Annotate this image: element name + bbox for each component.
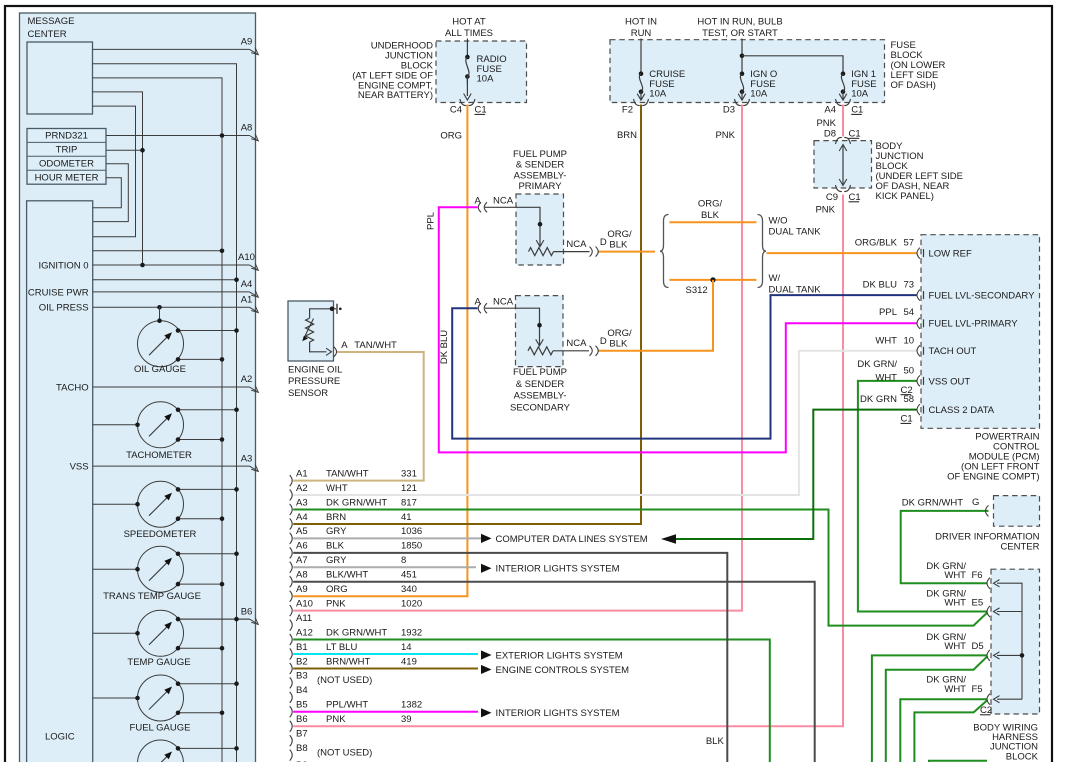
svg-text:VSS OUT: VSS OUT xyxy=(929,376,971,387)
svg-text:NEAR BATTERY): NEAR BATTERY) xyxy=(358,90,433,101)
label PNK / D8 / C1 at body junction block input xyxy=(816,118,860,140)
label W/ DUAL TANK xyxy=(769,273,822,296)
svg-text:DK BLU: DK BLU xyxy=(863,279,897,290)
svg-text:C1: C1 xyxy=(849,128,861,139)
svg-text:WHT: WHT xyxy=(944,598,966,609)
svg-text:BLOCK: BLOCK xyxy=(1006,751,1039,762)
svg-text:G: G xyxy=(972,497,979,508)
label POWERTRAIN CONTROL MODULE (PCM) (ON LEFT FRONT OF ENGINE COMPT) xyxy=(947,432,1040,483)
wire IGNITION 0 to A10 xyxy=(93,252,259,270)
label INTERIOR LIGHTS SYSTEM A7 xyxy=(496,564,620,575)
svg-text:IGNITION 0: IGNITION 0 xyxy=(38,260,88,271)
svg-text:451: 451 xyxy=(401,570,417,581)
svg-text:121: 121 xyxy=(401,483,417,494)
connector C9/C1 body junction block output xyxy=(826,185,861,203)
wire DK GRN/WHT body harness F5 lower approach xyxy=(914,700,987,767)
svg-text:DK GRN/WHT: DK GRN/WHT xyxy=(326,497,387,508)
wire hot-at-all-times feed xyxy=(466,39,468,58)
svg-text:CLASS 2 DATA: CLASS 2 DATA xyxy=(929,405,995,416)
svg-text:1382: 1382 xyxy=(401,700,422,711)
wire bottom gauge to right bus xyxy=(176,746,239,751)
wire logic to left bus y250.8 xyxy=(93,249,225,254)
DIC pin G xyxy=(972,497,989,517)
svg-text:W/O: W/O xyxy=(769,215,788,226)
arrow interior lights system B5 xyxy=(481,708,492,717)
wire fuel gauge to left bus xyxy=(176,711,225,716)
wire DK GRN/WHT body harness D5 direct xyxy=(872,655,988,767)
wire temp gauge to left bus xyxy=(176,646,225,651)
svg-text:KICK PANEL): KICK PANEL) xyxy=(876,191,934,202)
svg-text:F5: F5 xyxy=(972,684,983,695)
svg-text:SENSOR: SENSOR xyxy=(288,388,328,399)
oil gauge xyxy=(138,321,184,367)
svg-text:ORG: ORG xyxy=(326,584,348,595)
wire BLK/WHT 451 A8 xyxy=(293,582,815,767)
label W/O DUAL TANK xyxy=(769,215,822,237)
svg-text:57: 57 xyxy=(904,237,915,248)
svg-text:39: 39 xyxy=(401,714,412,725)
wire BRN/WHT 419 B2 to engine controls system xyxy=(293,667,478,669)
cluster connector pin A6 xyxy=(290,541,422,559)
svg-text:WHT: WHT xyxy=(326,483,348,494)
svg-text:PNK: PNK xyxy=(326,598,346,609)
wire logic to bottom gauge xyxy=(93,762,138,764)
label ENGINE OIL PRESSURE SENSOR xyxy=(288,364,342,399)
svg-text:& SENDER: & SENDER xyxy=(516,379,565,390)
wire oil gauge to right bus xyxy=(176,328,239,333)
svg-text:D8: D8 xyxy=(824,128,836,139)
svg-text:INTERIOR LIGHTS SYSTEM: INTERIOR LIGHTS SYSTEM xyxy=(496,564,620,575)
PCM pin VSS OUT xyxy=(901,365,971,395)
wire CRUISE PWR to A4 xyxy=(93,279,259,297)
svg-text:8: 8 xyxy=(401,555,406,566)
svg-text:B8: B8 xyxy=(296,743,308,754)
wire GRY 8 A7 to interior lights system xyxy=(293,566,476,568)
svg-text:817: 817 xyxy=(401,497,417,508)
svg-text:B1: B1 xyxy=(296,642,308,653)
cluster connector pin A3 xyxy=(290,497,417,515)
wire tachometer to right bus xyxy=(176,408,239,413)
arrow computer data lines system xyxy=(481,534,492,543)
wire PNK body junction block C9 to B6 xyxy=(293,195,843,727)
wire ORG/BLK option without dual tank xyxy=(669,221,756,223)
wire TAN/WHT oil pressure sensor to A1 xyxy=(293,352,424,481)
label ORG/BLK (primary D) xyxy=(607,229,632,250)
svg-text:HOT AT: HOT AT xyxy=(452,16,486,27)
wire BLK 1850 A6 xyxy=(293,553,727,767)
svg-text:DK GRN/WHT: DK GRN/WHT xyxy=(902,498,963,509)
wire ORG/BLK option with dual tank / splice S312 xyxy=(669,277,756,282)
logic module block xyxy=(27,201,93,767)
svg-text:DUAL TANK: DUAL TANK xyxy=(769,227,822,238)
svg-text:E5: E5 xyxy=(972,598,984,609)
svg-text:TACHO: TACHO xyxy=(56,382,89,393)
svg-text:D: D xyxy=(600,336,607,347)
svg-text:RUN: RUN xyxy=(631,28,652,39)
svg-text:A8: A8 xyxy=(241,123,253,134)
svg-text:W/: W/ xyxy=(769,273,781,284)
svg-text:ORG/: ORG/ xyxy=(698,199,723,210)
wire PPL fuel pump primary A to PCM FUEL LVL-PRIMARY xyxy=(439,207,917,452)
wire oil gauge to left bus xyxy=(176,357,225,362)
body wiring harness junction block xyxy=(991,569,1040,714)
svg-text:A9: A9 xyxy=(296,584,308,595)
svg-text:TRANS TEMP GAUGE: TRANS TEMP GAUGE xyxy=(103,591,201,602)
label IGN 1 FUSE 10A xyxy=(851,69,876,99)
label FUEL GAUGE xyxy=(130,722,191,733)
svg-text:BLK: BLK xyxy=(706,736,725,747)
svg-text:OIL PRESS: OIL PRESS xyxy=(39,303,89,314)
cluster connector pin A5 xyxy=(290,526,422,544)
cluster connector pin B1 xyxy=(290,642,412,660)
cluster connector pin A11 xyxy=(290,613,313,631)
svg-text:F2: F2 xyxy=(622,105,633,116)
wire logic to temp gauge xyxy=(93,631,140,636)
svg-text:NCA: NCA xyxy=(566,338,587,349)
wire DK GRN 58 PCM CLASS 2 DATA to data line arrow xyxy=(676,410,917,539)
svg-text:OIL GAUGE: OIL GAUGE xyxy=(134,364,186,375)
svg-text:TRIP: TRIP xyxy=(56,145,78,156)
svg-text:A2: A2 xyxy=(241,374,253,385)
svg-text:ENGINE OIL: ENGINE OIL xyxy=(288,364,342,375)
svg-text:BLK: BLK xyxy=(609,339,628,350)
svg-text:D3: D3 xyxy=(723,105,735,116)
wire message center line2 to right vertical bus xyxy=(93,64,237,767)
temp gauge xyxy=(138,610,184,656)
label FUEL PUMP & SENDER ASSEMBLY-PRIMARY xyxy=(513,149,567,192)
svg-text:A5: A5 xyxy=(296,526,308,537)
fuse CRUISE FUSE 10A xyxy=(637,71,645,100)
svg-text:DUAL TANK: DUAL TANK xyxy=(769,285,822,296)
display block PRND321/TRIP/ODOMETER/HOUR METER xyxy=(27,129,106,185)
svg-text:419: 419 xyxy=(401,656,417,667)
svg-text:ASSEMBLY-: ASSEMBLY- xyxy=(514,170,567,181)
svg-text:10A: 10A xyxy=(649,89,667,100)
wire PRND321 to A8 xyxy=(106,123,258,141)
wire tachometer to left bus xyxy=(176,437,225,442)
svg-text:BLK: BLK xyxy=(326,541,345,552)
label RADIO FUSE 10A xyxy=(477,54,507,84)
svg-text:B7: B7 xyxy=(296,729,308,740)
label BLK xyxy=(706,736,725,747)
svg-text:TACH OUT: TACH OUT xyxy=(929,346,977,357)
fuel pump and sender assembly primary xyxy=(478,194,598,265)
label (NOT USED) B8 xyxy=(317,747,372,758)
svg-text:FUEL PUMP: FUEL PUMP xyxy=(513,367,567,378)
svg-text:A3: A3 xyxy=(241,453,253,464)
svg-text:PNK: PNK xyxy=(715,130,735,141)
cluster connector pin B2 xyxy=(290,656,417,674)
svg-text:1932: 1932 xyxy=(401,627,422,638)
fuse RADIO FUSE 10A xyxy=(464,55,472,100)
label PNK (ign-o wire) xyxy=(715,130,735,141)
arrow interior lights system A7 xyxy=(481,564,492,573)
wire DK GRN/WHT next pin approach (partial at bottom) xyxy=(929,761,987,767)
cluster connector pin B3 xyxy=(290,671,308,689)
svg-text:WHT: WHT xyxy=(944,684,966,695)
svg-text:331: 331 xyxy=(401,468,417,479)
label DK BLU (vertical) xyxy=(439,330,450,364)
svg-text:C4: C4 xyxy=(450,105,462,116)
wire oil press to oil gauge top xyxy=(157,307,162,323)
svg-text:A8: A8 xyxy=(296,570,308,581)
svg-text:73: 73 xyxy=(904,279,915,290)
svg-text:10A: 10A xyxy=(477,73,495,84)
wire VSS to A3 xyxy=(93,453,259,471)
svg-text:DK GRN/: DK GRN/ xyxy=(857,359,897,370)
svg-text:BLK: BLK xyxy=(609,239,628,250)
svg-text:LT BLU: LT BLU xyxy=(326,642,357,653)
wire PPL/WHT 1382 B5 to interior lights system xyxy=(293,711,478,713)
cluster connector pin A4 xyxy=(290,512,412,530)
svg-text:& SENDER: & SENDER xyxy=(516,160,565,171)
wire WHT 10 A2 to PCM TACH OUT xyxy=(293,351,916,495)
wire hot-in-run-bulb-test feed and branch xyxy=(740,39,843,74)
trans temp gauge xyxy=(138,546,184,592)
svg-text:SECONDARY: SECONDARY xyxy=(510,403,571,414)
wire DK GRN/WHT DIC G to body harness F6 xyxy=(901,511,989,583)
svg-text:TACHOMETER: TACHOMETER xyxy=(126,450,192,461)
svg-text:A3: A3 xyxy=(296,497,308,508)
sensor case connection stub xyxy=(334,304,342,314)
svg-text:CRUISE PWR: CRUISE PWR xyxy=(28,287,89,298)
label NCA D (secondary) xyxy=(566,336,607,349)
svg-text:A: A xyxy=(475,296,482,307)
driver information center xyxy=(994,496,1040,527)
svg-text:PRND321: PRND321 xyxy=(45,131,88,142)
cluster connector pin A2 xyxy=(290,483,417,501)
svg-text:A6: A6 xyxy=(296,541,308,552)
svg-text:SPEEDOMETER: SPEEDOMETER xyxy=(124,529,197,540)
svg-text:50: 50 xyxy=(904,365,915,376)
arrow to computer data lines (left) xyxy=(661,534,676,544)
svg-text:TEMP GAUGE: TEMP GAUGE xyxy=(127,657,190,668)
svg-text:PNK: PNK xyxy=(326,714,346,725)
wire through body junction block xyxy=(839,145,847,186)
label DK GRN (CLASS 2 DATA) xyxy=(860,394,897,405)
svg-text:41: 41 xyxy=(401,512,412,523)
svg-text:A4: A4 xyxy=(296,512,308,523)
label BRN xyxy=(617,130,637,141)
connector A at sensor xyxy=(334,347,337,357)
wire trans temp gauge to left bus xyxy=(176,582,225,587)
svg-text:B6: B6 xyxy=(296,714,308,725)
svg-text:TEST, OR START: TEST, OR START xyxy=(702,28,778,39)
cluster connector pin A1 xyxy=(290,468,417,486)
svg-text:A1: A1 xyxy=(241,295,253,306)
wire speedometer to left bus xyxy=(176,516,225,521)
svg-text:TAN/WHT: TAN/WHT xyxy=(354,340,397,351)
connector D8 cup xyxy=(836,137,851,144)
wire PNK ign-1 fuse A4 to body junction block D8 xyxy=(842,105,844,137)
svg-text:BLK/WHT: BLK/WHT xyxy=(326,570,368,581)
label FUSE BLOCK (ON LOWER LEFT SIDE OF DASH) xyxy=(891,40,946,91)
svg-text:A2: A2 xyxy=(296,483,308,494)
body junction block xyxy=(814,141,872,188)
option brace right xyxy=(758,215,767,288)
svg-text:BRN: BRN xyxy=(617,130,637,141)
cluster connector pin B6 xyxy=(290,714,412,732)
speedometer gauge xyxy=(138,481,184,527)
label FUEL PUMP & SENDER ASSEMBLY-SECONDARY xyxy=(510,367,571,413)
label TRANS TEMP GAUGE xyxy=(103,591,201,602)
svg-text:BLK: BLK xyxy=(701,210,720,221)
svg-text:A9: A9 xyxy=(241,37,253,48)
arrow engine controls system xyxy=(481,665,492,674)
svg-text:D: D xyxy=(600,237,607,248)
wire PNK ign-o fuse D3 to A10 xyxy=(293,105,742,611)
wire ORG/BLK S312 to fuel pump secondary D xyxy=(598,280,714,351)
svg-text:S312: S312 xyxy=(686,285,708,296)
wire speedometer to right bus xyxy=(176,487,239,492)
harness pin E5 xyxy=(926,589,999,618)
svg-text:ENGINE CONTROLS SYSTEM: ENGINE CONTROLS SYSTEM xyxy=(496,665,630,676)
svg-text:WHT: WHT xyxy=(875,372,897,383)
label UNDERHOOD JUNCTION BLOCK (AT LEFT SIDE OF ENGINE COMPT, NEAR BATTERY) xyxy=(352,41,433,102)
svg-text:B6: B6 xyxy=(241,606,253,617)
svg-text:FUEL GAUGE: FUEL GAUGE xyxy=(130,722,191,733)
wire message center to A9 xyxy=(93,37,259,55)
label TACHOMETER xyxy=(126,450,192,461)
PCM pin LOW REF xyxy=(855,237,972,259)
PCM pin FUEL LVL-PRIMARY xyxy=(879,307,1018,330)
svg-text:(NOT USED): (NOT USED) xyxy=(317,675,372,686)
powertrain control module (PCM) xyxy=(921,235,1040,429)
svg-text:INTERIOR LIGHTS SYSTEM: INTERIOR LIGHTS SYSTEM xyxy=(496,708,620,719)
svg-text:340: 340 xyxy=(401,584,417,595)
svg-text:A: A xyxy=(341,340,348,351)
svg-text:PNK: PNK xyxy=(815,204,835,215)
label BODY WIRING HARNESS JUNCTION BLOCK xyxy=(973,723,1038,763)
label SPEEDOMETER xyxy=(124,529,197,540)
svg-text:B4: B4 xyxy=(296,685,308,696)
label EXTERIOR LIGHTS SYSTEM xyxy=(496,650,623,661)
cluster connector pin B4 xyxy=(290,685,308,703)
svg-text:EXTERIOR LIGHTS SYSTEM: EXTERIOR LIGHTS SYSTEM xyxy=(496,650,623,661)
harness internal bus xyxy=(997,583,1024,699)
wire logic to fuel gauge xyxy=(93,696,140,701)
svg-text:10: 10 xyxy=(904,335,915,346)
svg-text:NCA: NCA xyxy=(493,296,514,307)
svg-text:PRESSURE: PRESSURE xyxy=(288,376,340,387)
label A NCA (primary) xyxy=(475,195,514,206)
svg-text:D5: D5 xyxy=(972,641,984,652)
label HOT IN RUN BULB TEST OR START xyxy=(697,16,782,39)
label PPL (vertical) xyxy=(425,212,436,230)
wire ORG radio fuse to A9 xyxy=(293,105,467,597)
wire logic to trans temp gauge xyxy=(93,567,140,572)
svg-text:C9: C9 xyxy=(826,192,838,203)
svg-text:C1: C1 xyxy=(851,105,863,116)
label VSS xyxy=(70,462,89,473)
svg-text:A4: A4 xyxy=(824,105,836,116)
svg-text:A10: A10 xyxy=(296,598,313,609)
label DK GRN/ WHT (VSS OUT) xyxy=(857,359,897,384)
svg-text:OF DASH): OF DASH) xyxy=(891,80,936,91)
wire TRIP row xyxy=(106,148,145,153)
arrow exterior lights system xyxy=(481,650,492,659)
svg-text:10A: 10A xyxy=(750,89,768,100)
wire message center line5 into logic module xyxy=(93,106,136,237)
svg-text:1850: 1850 xyxy=(401,541,422,552)
svg-text:PPL: PPL xyxy=(879,307,897,318)
svg-text:CENTER: CENTER xyxy=(28,29,67,40)
svg-text:A10: A10 xyxy=(238,252,255,263)
label NCA D (primary) xyxy=(566,237,607,250)
svg-text:(NOT USED): (NOT USED) xyxy=(317,747,372,758)
svg-text:A12: A12 xyxy=(296,627,313,638)
svg-text:OF ENGINE COMPT): OF ENGINE COMPT) xyxy=(947,472,1039,483)
svg-text:HOUR METER: HOUR METER xyxy=(35,172,99,183)
wire message center line3 to left vertical bus xyxy=(93,78,223,767)
svg-text:FUEL LVL-PRIMARY: FUEL LVL-PRIMARY xyxy=(929,319,1019,330)
wire LT BLU 14 B1 to exterior lights system xyxy=(293,653,478,655)
svg-text:C1: C1 xyxy=(475,105,487,116)
cluster connector pin B8 xyxy=(290,743,308,761)
label ENGINE CONTROLS SYSTEM xyxy=(496,665,630,676)
svg-text:NCA: NCA xyxy=(566,239,587,250)
label BODY JUNCTION BLOCK (UNDER LEFT SIDE OF DASH, NEAR KICK PANEL) xyxy=(876,141,963,202)
label ORG xyxy=(440,130,462,141)
svg-text:1020: 1020 xyxy=(401,598,422,609)
label TACHO xyxy=(56,382,89,393)
engine oil pressure sensor xyxy=(288,301,334,361)
connector D3 ign-o fuse output xyxy=(723,99,750,116)
svg-text:PPL: PPL xyxy=(425,212,436,230)
harness pin F6 xyxy=(926,561,999,589)
connector C4/C1 radio fuse output xyxy=(450,99,487,116)
wire TACHO to A2 xyxy=(93,374,259,392)
svg-text:HOT IN RUN, BULB: HOT IN RUN, BULB xyxy=(697,16,782,27)
svg-text:PRIMARY: PRIMARY xyxy=(518,181,562,192)
cluster connector pin A10 xyxy=(290,598,422,616)
svg-text:ORG: ORG xyxy=(440,130,462,141)
svg-text:COMPUTER DATA LINES SYSTEM: COMPUTER DATA LINES SYSTEM xyxy=(496,534,648,545)
option brace left xyxy=(660,215,669,288)
cluster connector pin A7 xyxy=(290,555,407,573)
label (NOT USED) B3/B4 xyxy=(317,675,372,686)
svg-text:TAN/WHT: TAN/WHT xyxy=(326,468,369,479)
svg-text:A: A xyxy=(475,195,482,206)
wire logic to right bus y279.8 xyxy=(93,278,239,283)
underhood junction block xyxy=(436,41,527,103)
label ORG/BLK above option brace xyxy=(698,199,723,221)
wire fuel gauge to right bus xyxy=(176,681,239,686)
svg-text:14: 14 xyxy=(401,642,412,653)
label PNK below C9 xyxy=(815,204,835,215)
PCM pin CLASS 2 DATA xyxy=(901,394,995,425)
svg-text:ALL TIMES: ALL TIMES xyxy=(445,28,493,39)
label IGNITION 0 xyxy=(38,260,88,271)
svg-text:CENTER: CENTER xyxy=(1000,541,1039,552)
svg-text:WHT: WHT xyxy=(875,335,897,346)
svg-text:ODOMETER: ODOMETER xyxy=(39,159,94,170)
svg-text:LOW REF: LOW REF xyxy=(929,249,972,260)
label CRUISE FUSE 10A xyxy=(649,69,685,99)
label A TAN/WHT at sensor xyxy=(341,340,397,351)
label TEMP GAUGE xyxy=(127,657,190,668)
wire DK GRN/WHT body harness F5 direct xyxy=(900,699,987,767)
svg-text:C1: C1 xyxy=(849,192,861,203)
svg-text:10A: 10A xyxy=(851,89,869,100)
label LOGIC xyxy=(45,731,75,742)
instrument cluster panel xyxy=(20,13,256,767)
harness pin F5 xyxy=(926,675,999,705)
svg-text:54: 54 xyxy=(904,307,915,318)
svg-text:DK GRN/WHT: DK GRN/WHT xyxy=(326,627,387,638)
wire HOUR METER row into logic module xyxy=(93,178,122,208)
svg-text:F6: F6 xyxy=(972,570,983,581)
